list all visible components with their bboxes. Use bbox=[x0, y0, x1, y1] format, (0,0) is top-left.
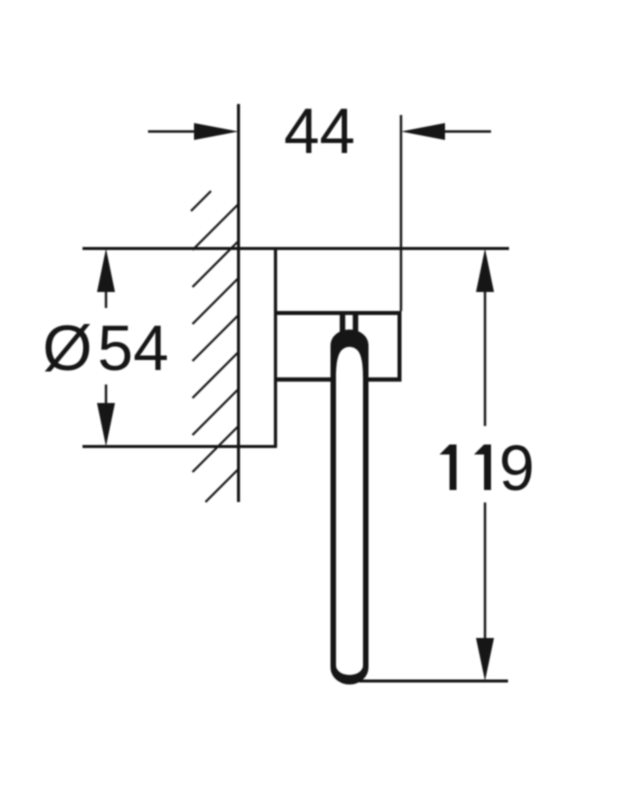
svg-text:Ø: Ø bbox=[43, 312, 93, 384]
svg-text:44: 44 bbox=[284, 95, 355, 167]
svg-text:9: 9 bbox=[499, 432, 535, 504]
svg-text:54: 54 bbox=[98, 312, 169, 384]
